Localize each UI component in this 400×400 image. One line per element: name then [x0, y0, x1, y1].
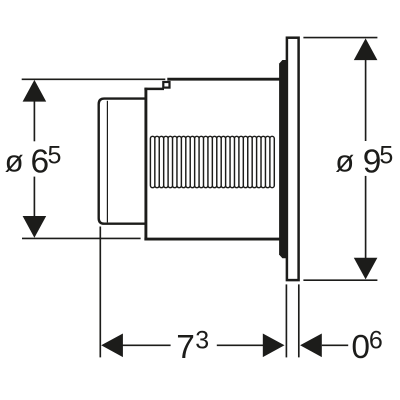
svg-text:0: 0: [351, 329, 370, 366]
svg-text:5: 5: [48, 141, 62, 169]
svg-text:ø: ø: [335, 143, 354, 178]
svg-text:ø: ø: [5, 143, 24, 178]
svg-text:7: 7: [176, 329, 195, 366]
svg-text:5: 5: [379, 141, 393, 169]
svg-text:3: 3: [195, 326, 209, 354]
svg-text:6: 6: [31, 143, 50, 180]
svg-text:6: 6: [369, 326, 383, 354]
